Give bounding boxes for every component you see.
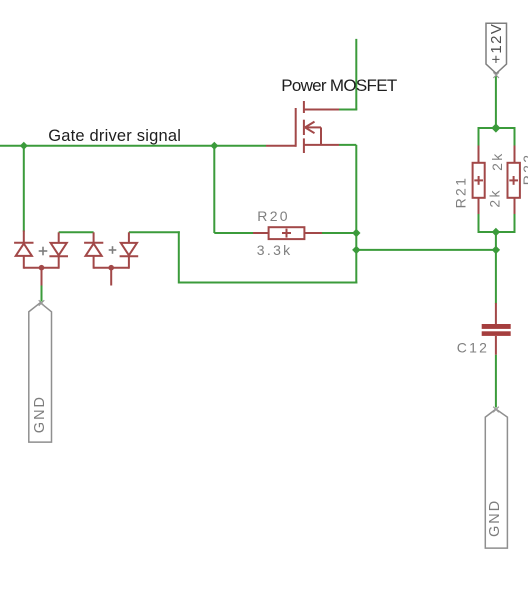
svg-text:R20: R20	[257, 208, 290, 224]
svg-text:R21: R21	[453, 176, 469, 209]
svg-text:3.3k: 3.3k	[257, 242, 293, 258]
svg-text:GND: GND	[487, 499, 503, 537]
svg-text:2k: 2k	[487, 188, 503, 207]
svg-text:GND: GND	[32, 395, 48, 433]
svg-text:2k: 2k	[489, 152, 505, 171]
svg-text:C12: C12	[457, 340, 490, 356]
svg-text:R22: R22	[520, 153, 528, 186]
svg-text:+12V: +12V	[488, 23, 505, 64]
svg-text:Gate driver signal: Gate driver signal	[48, 127, 181, 145]
svg-text:Power MOSFET: Power MOSFET	[281, 76, 397, 95]
